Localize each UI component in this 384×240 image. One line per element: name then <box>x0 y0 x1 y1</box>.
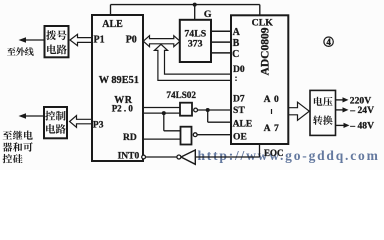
svg-text:CLK: CLK <box>252 17 274 28</box>
svg-text:373: 373 <box>188 39 203 50</box>
svg-text:RD: RD <box>123 133 137 143</box>
svg-text:ADC0809: ADC0809 <box>259 27 271 75</box>
svg-text:OE: OE <box>233 131 247 142</box>
svg-text:A 7: A 7 <box>264 123 280 134</box>
svg-text:EOC: EOC <box>264 148 284 158</box>
svg-text:ST: ST <box>233 105 245 116</box>
svg-text:P0: P0 <box>126 35 137 46</box>
svg-text:D0: D0 <box>233 64 245 75</box>
svg-text:W 89E51: W 89E51 <box>99 75 139 86</box>
svg-text:A: A <box>233 27 241 38</box>
svg-text:P3: P3 <box>93 120 104 130</box>
svg-text:A 0: A 0 <box>264 94 280 105</box>
svg-text:ALE: ALE <box>102 19 123 30</box>
svg-text:ALE: ALE <box>233 118 253 129</box>
svg-text:74LS02: 74LS02 <box>166 90 196 100</box>
svg-text:C: C <box>232 49 239 60</box>
svg-text:– 24V: – 24V <box>349 105 374 116</box>
svg-text:P2 . 0: P2 . 0 <box>112 104 134 114</box>
svg-text:B: B <box>233 38 240 49</box>
svg-text:– 48V: – 48V <box>349 120 374 131</box>
svg-text:G: G <box>204 9 212 20</box>
svg-text:INT0: INT0 <box>118 152 140 162</box>
svg-text:4: 4 <box>326 37 331 47</box>
svg-text:http://www.go-gddq.com: http://www.go-gddq.com <box>198 148 380 163</box>
svg-text:D7: D7 <box>233 93 245 104</box>
svg-text:P1: P1 <box>94 35 105 46</box>
